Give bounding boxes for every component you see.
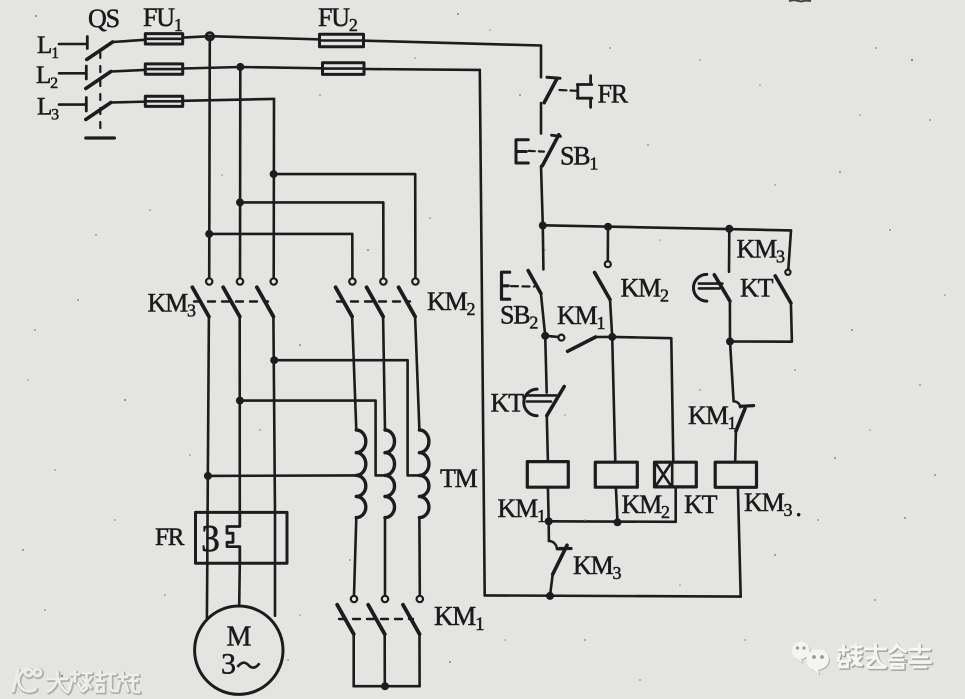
control return wire left bbox=[480, 70, 485, 596]
wire coil bottom link bbox=[549, 487, 676, 522]
contactor KM1 pole 3 bbox=[417, 596, 423, 602]
junction tap A feed bbox=[270, 356, 278, 364]
junction tap B feed bbox=[236, 397, 244, 405]
junction bottom bus bbox=[546, 592, 554, 600]
contactor KM2 pole 1 bbox=[349, 278, 355, 284]
wire node to KT coil bbox=[612, 337, 673, 462]
svg-text:KT: KT bbox=[684, 490, 718, 519]
junction below KT contact bbox=[726, 338, 734, 346]
svg-text:TM: TM bbox=[440, 464, 478, 493]
wire TM coil1 to KM1 pole1 bbox=[354, 518, 356, 596]
contactor KM2 pole 2 bbox=[380, 278, 386, 284]
watermark text dashu kuajing bbox=[48, 672, 140, 694]
wire bus to KM2 aux bbox=[606, 227, 609, 262]
disconnect switch QS pole 1 blade bbox=[87, 42, 113, 60]
wire vertical phase C drop bbox=[272, 99, 275, 278]
watermark text gandian zhijia bbox=[838, 645, 932, 670]
autotransformer TM coil 3 bbox=[419, 430, 429, 518]
control bus wire bbox=[543, 225, 791, 230]
svg-text:3: 3 bbox=[201, 518, 219, 560]
time contact KT branch1 delay arc bbox=[524, 389, 537, 416]
junction KM1 coil bottom bbox=[545, 517, 553, 525]
contactor KM3 pole 2 bbox=[237, 278, 243, 284]
wire KM3 pole3 to FR box bbox=[273, 317, 275, 513]
QS handle bar bbox=[86, 136, 115, 139]
contactor KM3 linkage dashed bbox=[194, 300, 268, 302]
wire node to KM1 NC bbox=[730, 342, 734, 402]
junction phase C to KM2 bbox=[270, 170, 278, 178]
contactor KM3 pole 3 bbox=[271, 278, 277, 284]
motor tilde bbox=[238, 663, 260, 668]
control bottom bus wire bbox=[485, 595, 741, 596]
auxiliary contact KM3 NC bottom bbox=[547, 521, 550, 541]
coil KM1 bbox=[527, 462, 568, 488]
button SB1 NC blade bbox=[542, 135, 558, 166]
fuse FU1 phase A bbox=[145, 34, 182, 44]
wire KM3 pole2 to FR box bbox=[238, 317, 241, 513]
fuse FU2 phase B bbox=[323, 63, 365, 75]
wire KM1 pole3 down bbox=[418, 634, 421, 686]
thermal contact FR NC bar bbox=[547, 77, 560, 78]
coil KT bbox=[655, 462, 697, 487]
wire KM1 pole1 down bbox=[352, 634, 355, 686]
junction tap C feed bbox=[204, 472, 212, 480]
wire FR to motor right bbox=[274, 563, 277, 615]
wire KM1 NC to KM3 coil bbox=[734, 431, 737, 461]
watermark wechat logo bbox=[792, 642, 830, 676]
wire bus to SB2 bbox=[541, 225, 544, 269]
wire TM coil3 to KM1 pole3 bbox=[418, 518, 421, 596]
FR NC dashed link bbox=[560, 89, 577, 92]
wire KM2 pole1 to TM coil1 bbox=[352, 317, 356, 430]
wire SB2 to node bbox=[541, 293, 545, 335]
wire branch B to KM2 middle bbox=[240, 202, 383, 277]
SB1 dashed link bbox=[529, 150, 544, 153]
button SB2 NO blade bbox=[528, 271, 541, 294]
junction star point bbox=[381, 682, 389, 690]
wire FR to motor left bbox=[206, 563, 209, 618]
junction KM2 coil bottom bbox=[614, 518, 622, 526]
wire vertical phase B drop bbox=[239, 67, 242, 278]
disconnect switch QS pole 3 jaw bbox=[85, 98, 88, 112]
time contact KT branch1 blade bbox=[547, 387, 564, 416]
disconnect switch QS pole 2 jaw bbox=[85, 66, 88, 79]
top edge mark bbox=[789, 0, 811, 2]
junction phase A top bbox=[206, 33, 213, 40]
wire through FR box right bbox=[274, 512, 277, 563]
contactor KM2 linkage dashed bbox=[337, 300, 410, 302]
contactor KM1 pole 2 bbox=[382, 596, 388, 602]
button SB1 NC bar bbox=[552, 135, 561, 136]
contactor KM3 pole 1 bbox=[206, 278, 212, 284]
wire tap C to TM coil1 tap bbox=[208, 474, 356, 477]
node L2 lead bbox=[59, 72, 85, 75]
node L1 lead bbox=[59, 43, 86, 46]
FR heater element bbox=[227, 512, 240, 563]
wire node to KM2 coil bbox=[612, 337, 615, 462]
contactor KM1 linkage dashed bbox=[339, 618, 413, 620]
svg-text:FR: FR bbox=[155, 524, 185, 551]
wire KM2 pole2 to TM coil2 bbox=[383, 317, 385, 430]
disconnect switch QS pole 3 blade bbox=[86, 103, 111, 120]
wire KM3 pole1 to FR box bbox=[208, 317, 209, 513]
wire FR to motor middle bbox=[238, 563, 241, 606]
wire KM2 pole3 to TM coil3 bbox=[415, 317, 419, 430]
wire KT contact to KM1 coil bbox=[547, 416, 548, 462]
wire phase B top bbox=[111, 67, 480, 72]
SB2 dashed link bbox=[511, 285, 534, 288]
contactor KM1 pole 1 bbox=[351, 596, 357, 602]
watermark logo bottom left bbox=[13, 669, 42, 692]
node L3 lead bbox=[59, 103, 85, 106]
wire vertical phase A drop bbox=[208, 36, 211, 277]
thermal contact FR NC blade bbox=[544, 80, 556, 103]
svg-text:KT: KT bbox=[740, 274, 774, 303]
fuse FU1 phase C bbox=[145, 96, 182, 106]
auxiliary contact KM2 bbox=[605, 261, 611, 267]
junction bus right bbox=[725, 225, 733, 233]
svg-text:FR: FR bbox=[598, 80, 629, 109]
wire branch A to KM2 left bbox=[209, 234, 352, 278]
fuse FU1 phase B bbox=[145, 64, 182, 74]
motor M circle bbox=[195, 606, 283, 694]
wire KM3 coil bottom riser bbox=[738, 487, 741, 596]
auxiliary contact KM1 NC bbox=[734, 401, 741, 407]
wire tap B to TM coil2 tap bbox=[240, 401, 385, 476]
wire tap A to TM coil3 tap bbox=[274, 360, 419, 475]
control wire from phase A to FR contact bbox=[540, 46, 543, 78]
wire KM3 NC to bottom bus bbox=[550, 574, 553, 596]
auxiliary contact KM3 NC top right bbox=[785, 270, 790, 275]
FR actuator symbol bbox=[577, 76, 592, 108]
junction KM2 branch node bbox=[608, 333, 616, 341]
wire branch C to KM2 right bbox=[274, 174, 416, 277]
wire KM2 aux to node bbox=[610, 300, 612, 337]
auxiliary contact KM1 self-hold bbox=[545, 336, 558, 337]
contactor KM2 pole 3 bbox=[412, 278, 418, 284]
wire SB1 to bus bbox=[541, 166, 543, 225]
button SB1 cap bbox=[516, 140, 528, 163]
junction bus left bbox=[539, 222, 547, 230]
junction bus middle bbox=[604, 223, 612, 231]
disconnect switch QS pole 1 jaw bbox=[86, 37, 89, 49]
autotransformer TM coil 2 bbox=[385, 430, 395, 518]
wire TM coil2 to KM1 pole2 bbox=[384, 518, 387, 596]
wire KM1 coil down bbox=[547, 487, 550, 521]
autotransformer TM coil 1 bbox=[356, 430, 366, 518]
wire node to KT delayed contact bbox=[545, 336, 547, 393]
wire phase C top bbox=[111, 99, 274, 103]
disconnect switch QS pole 2 blade bbox=[86, 72, 111, 89]
coil KM2 bbox=[595, 462, 637, 487]
junction phase B to KM2 bbox=[236, 198, 244, 206]
QS linkage dashed bbox=[99, 52, 101, 133]
junction below SB2 bbox=[541, 332, 549, 340]
wire through FR box left bbox=[206, 512, 209, 563]
wire FR contact to SB1 bbox=[540, 103, 543, 134]
wire bus to KT contact bbox=[728, 229, 731, 272]
button SB2 cap bbox=[502, 272, 510, 299]
svg-text:3: 3 bbox=[221, 648, 235, 681]
junction phase A to KM2 bbox=[205, 230, 213, 238]
svg-text:KT: KT bbox=[491, 389, 525, 418]
svg-text:QS: QS bbox=[88, 4, 119, 33]
time contact KT delayed blade bbox=[714, 275, 730, 301]
wire KM2 coil down bbox=[616, 487, 618, 522]
time contact KT delay arc bbox=[693, 274, 706, 301]
junction phase B top bbox=[236, 63, 244, 71]
coil KM3 bbox=[715, 462, 756, 487]
wire bus corner down to KM3 contact bbox=[788, 230, 791, 269]
wire KM1 pole2 down bbox=[383, 634, 386, 686]
wire KT contact down bbox=[729, 301, 732, 341]
wire star point bus bbox=[354, 685, 420, 688]
fuse FU2 phase A bbox=[320, 34, 364, 46]
wire phase A top bbox=[113, 36, 541, 45]
wire KM3 NC down and across bbox=[730, 303, 792, 342]
thermal relay FR box bbox=[196, 512, 288, 563]
